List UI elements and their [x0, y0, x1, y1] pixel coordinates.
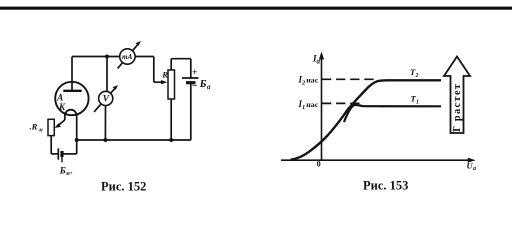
svg-text:а: а — [207, 83, 211, 91]
svg-text:1: 1 — [416, 99, 419, 105]
svg-text:0: 0 — [317, 160, 321, 169]
svg-text:Т растет: Т растет — [452, 83, 463, 134]
svg-text:K: K — [58, 102, 66, 112]
svg-text:а: а — [473, 166, 476, 172]
svg-text:.: . — [71, 166, 73, 175]
svg-text:R: R — [161, 70, 168, 80]
svg-text:1: 1 — [302, 104, 305, 111]
svg-text:нас: нас — [306, 100, 318, 109]
svg-text:mA: mA — [122, 53, 133, 61]
svg-text:нас: нас — [306, 76, 318, 85]
svg-text:2: 2 — [301, 80, 306, 87]
svg-text:н: н — [39, 126, 43, 133]
svg-text:Б: Б — [59, 166, 66, 176]
svg-text:V: V — [103, 95, 110, 105]
svg-text:Рис. 152: Рис. 152 — [101, 180, 146, 194]
svg-text:–: – — [191, 81, 197, 91]
svg-text:.R: .R — [30, 121, 38, 131]
svg-text:+: + — [192, 68, 197, 78]
svg-text:Рис. 153: Рис. 153 — [363, 179, 408, 193]
svg-text:Б: Б — [199, 79, 207, 90]
svg-text:2: 2 — [415, 73, 419, 79]
svg-text:а: а — [317, 57, 321, 65]
